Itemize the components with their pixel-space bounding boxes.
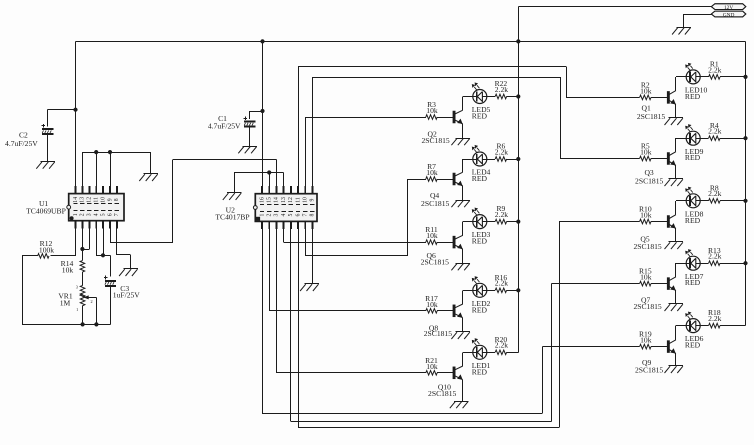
svg-text:RED: RED: [685, 92, 701, 101]
wire Q4 emitter: [462, 186, 464, 200]
wire U2 pin4 to Q6 base: [284, 221, 426, 242]
svg-text:10k: 10k: [62, 265, 74, 274]
LED LED4 label: [472, 168, 491, 183]
ground Q1: [665, 118, 684, 126]
svg-text:RED: RED: [472, 237, 488, 246]
transistor Q8 label: [424, 323, 452, 337]
resistor R9 label: [495, 204, 508, 219]
wire LED10 to R1: [696, 76, 709, 78]
resistor R20 2.2k: [495, 350, 518, 355]
resistor R6 2.2k: [495, 157, 518, 162]
wire U2 VDD feed (pin 16): [262, 41, 264, 193]
resistor R3 10k: [426, 115, 453, 120]
wire Q2 collector: [463, 97, 477, 111]
node R8 supply junction: [744, 199, 747, 202]
capacitor C2: [41, 124, 53, 162]
svg-text:RED: RED: [685, 153, 701, 162]
LED LED6 label: [685, 334, 704, 349]
ground Q4: [451, 200, 470, 207]
LED LED2 label: [472, 299, 491, 314]
resistor R1 2.2k: [709, 75, 746, 80]
resistor R7 10k: [426, 177, 453, 182]
resistor R4 label: [708, 121, 721, 136]
svg-text:10k: 10k: [426, 106, 438, 115]
resistor R22 label: [495, 79, 509, 94]
transistor Q1 label: [637, 104, 665, 122]
node U1 pin2/pin3 junction: [81, 247, 84, 250]
svg-text:1: 1: [259, 213, 265, 216]
ground GND flag: [672, 28, 691, 35]
ground Q8: [451, 332, 470, 340]
svg-text:11: 11: [295, 197, 301, 203]
ground Q10: [450, 401, 469, 408]
wire Q7 collector: [676, 263, 691, 277]
resistor R7 label: [426, 162, 438, 177]
svg-text:1: 1: [76, 307, 78, 312]
U2 reference label: [215, 206, 249, 222]
transistor Q10 label: [428, 383, 456, 398]
svg-text:2.2k: 2.2k: [708, 65, 721, 74]
wire U1 pin4 to C3: [96, 221, 110, 277]
LED LED4: [472, 146, 486, 166]
U2 pin numbers top row: [259, 197, 315, 205]
resistor R11 label: [425, 225, 438, 240]
svg-text:2.2k: 2.2k: [495, 85, 508, 94]
transistor Q9 2SC1815: [667, 340, 676, 354]
wire LED2 to R16: [482, 290, 495, 292]
wire Q3 collector: [676, 138, 691, 152]
wire Q2 emitter: [462, 124, 464, 138]
svg-text:14: 14: [73, 197, 79, 203]
resistor R21 10k: [426, 371, 453, 376]
wire Q8 collector: [463, 290, 477, 304]
wire Q7 emitter: [675, 291, 677, 304]
svg-text:10k: 10k: [640, 148, 652, 157]
resistor R18 label: [708, 308, 722, 323]
ground Q3: [665, 179, 684, 187]
svg-text:7: 7: [114, 213, 120, 216]
node rail-12V junction: [517, 40, 520, 43]
node VR1 bottom junction: [81, 323, 84, 326]
transistor Q5 label: [633, 234, 661, 251]
svg-text:12: 12: [87, 197, 93, 203]
resistor R8 label: [708, 183, 721, 198]
wire Q6 collector: [463, 222, 477, 236]
resistor R17 label: [425, 294, 438, 309]
wire Q1 emitter: [675, 104, 677, 117]
svg-text:10: 10: [303, 197, 309, 203]
wire Q8 emitter: [462, 318, 464, 332]
ground C1: [238, 147, 257, 154]
svg-text:2SC1815: 2SC1815: [635, 177, 663, 186]
ground U2 reset: [223, 193, 242, 200]
wire Q9 collector: [676, 326, 691, 340]
transistor Q2 label: [421, 129, 449, 145]
svg-text:4.7uF/25V: 4.7uF/25V: [208, 121, 241, 130]
wire LED1 to R20: [482, 352, 495, 354]
U1 pin numbers bottom row: [73, 211, 120, 217]
resistor R15 10k: [640, 281, 668, 286]
capacitor C3: [104, 276, 116, 325]
LED LED6: [686, 312, 700, 332]
wire U1 pin7 to ground: [117, 221, 131, 269]
wire +12V top rail: [76, 41, 746, 43]
wire U2 reset/enable ground: [234, 173, 283, 194]
transistor Q10 2SC1815: [453, 366, 463, 380]
wire U2 pin5 to Q7 base (bus B): [291, 221, 640, 421]
node C2 tap junction: [74, 108, 77, 111]
counter U2 body (TC4017BP): [253, 186, 317, 229]
wire U2 pin6 to Q5 base (bus C): [298, 221, 640, 427]
svg-text:GND: GND: [723, 12, 735, 18]
svg-text:11: 11: [94, 197, 100, 203]
svg-text:6: 6: [295, 213, 301, 216]
wire 12V flag to bus: [518, 6, 711, 8]
wire LED9 to R4: [696, 138, 709, 140]
LED LED3 label: [472, 230, 491, 245]
node R9 supply junction: [517, 220, 520, 223]
svg-text:16: 16: [259, 197, 265, 203]
LED LED7 label: [685, 272, 704, 287]
wire Q3 emitter: [675, 166, 677, 179]
svg-text:10k: 10k: [640, 86, 652, 95]
node U1 pin9 junction: [108, 151, 111, 154]
svg-text:2SC1815: 2SC1815: [424, 329, 452, 338]
transistor Q4 2SC1815: [453, 172, 463, 186]
node R1 supply junction: [744, 75, 747, 78]
svg-text:2SC1815: 2SC1815: [637, 112, 665, 121]
node VR1 wiper junction: [95, 323, 98, 326]
svg-text:10k: 10k: [640, 273, 652, 282]
svg-text:2.2k: 2.2k: [708, 252, 721, 261]
svg-text:2.2k: 2.2k: [708, 127, 721, 136]
resistor R14: [80, 261, 85, 286]
svg-text:2: 2: [91, 299, 93, 304]
ground Q9: [665, 366, 684, 374]
U1 reference label: [26, 199, 66, 216]
op-amp U1 body (TC4069UBP hex inverter): [67, 186, 124, 229]
ground Q2: [451, 138, 470, 145]
connector flag GND: [711, 11, 746, 18]
svg-text:2SC1815: 2SC1815: [421, 199, 449, 208]
svg-text:2.2k: 2.2k: [495, 341, 508, 350]
node U1 pin5 junction: [101, 254, 104, 257]
wire Q1 collector: [676, 77, 691, 91]
svg-text:TC4069UBP: TC4069UBP: [26, 207, 66, 216]
wire U1 pin5 down: [103, 221, 105, 256]
svg-text:2SC1815: 2SC1815: [633, 242, 661, 251]
node C1 tap junction: [261, 109, 264, 112]
svg-text:10k: 10k: [426, 168, 438, 177]
svg-text:2SC1815: 2SC1815: [633, 302, 661, 311]
svg-text:2.2k: 2.2k: [495, 210, 508, 219]
resistor R20 label: [495, 335, 509, 350]
svg-text:RED: RED: [685, 341, 701, 350]
wire Q6 emitter: [462, 249, 464, 263]
wire right +12V rail: [745, 41, 747, 325]
resistor R10 label: [639, 205, 652, 220]
resistor R2 10k: [640, 95, 668, 100]
transistor Q4 label: [421, 191, 449, 208]
svg-text:10k: 10k: [426, 231, 438, 240]
resistor R1 label: [708, 60, 721, 75]
wire LED4 to R6: [482, 159, 495, 161]
svg-text:3: 3: [274, 213, 280, 216]
LED LED9 label: [685, 147, 704, 162]
U2 pin numbers bottom row: [259, 212, 315, 217]
svg-text:13: 13: [281, 197, 287, 203]
svg-text:5: 5: [288, 213, 294, 216]
wire to C1: [250, 111, 263, 119]
LED LED9: [686, 125, 700, 145]
resistor R8 2.2k: [709, 199, 746, 204]
wire U2 pin9 to Q3 base: [312, 77, 639, 194]
ground Q5: [665, 242, 684, 250]
wire LED6 to R18: [696, 325, 709, 327]
wire LED8 to R8: [696, 200, 709, 202]
svg-text:10: 10: [100, 197, 106, 203]
resistor R5 10k: [640, 156, 668, 161]
wire Q10 collector: [463, 352, 477, 366]
ground U1 pin7: [119, 269, 138, 277]
LED LED7: [686, 250, 700, 270]
capacitor C2 label: [5, 130, 38, 148]
capacitor C1 label: [208, 114, 241, 130]
LED LED2: [472, 277, 486, 297]
wire Q4 collector: [463, 159, 477, 172]
wire U1 pin6 clock out: [110, 159, 277, 242]
svg-text:2SC1815: 2SC1815: [428, 389, 456, 398]
resistor R5 label: [640, 142, 652, 157]
resistor R4 2.2k: [709, 136, 746, 141]
svg-text:12: 12: [288, 197, 294, 203]
svg-text:7: 7: [303, 213, 309, 216]
wire U2 pin12 stub: [290, 186, 292, 194]
wire oscillator bottom loop: [22, 256, 110, 325]
ground Q6: [451, 264, 470, 271]
resistor R3 label: [426, 100, 438, 115]
wire Q5 emitter: [675, 229, 677, 242]
node R22 supply junction: [517, 95, 520, 98]
resistor R15 label: [639, 267, 652, 282]
wire U1 VDD feed (pin 14): [75, 41, 77, 193]
resistor R14 label: [61, 259, 74, 275]
svg-text:2.2k: 2.2k: [495, 147, 508, 156]
svg-text:RED: RED: [472, 174, 488, 183]
ground C2: [36, 162, 55, 169]
resistor R12 label: [39, 239, 54, 255]
LED LED1: [472, 339, 486, 359]
wire LED7 to R13: [696, 263, 709, 265]
transistor Q9 label: [635, 358, 663, 375]
ground U2 VSS (pin 8): [300, 221, 319, 291]
svg-text:14: 14: [274, 197, 280, 203]
svg-text:2SC1815: 2SC1815: [421, 257, 449, 266]
wire LED3 to R9: [482, 221, 495, 223]
resistor R17 10k: [426, 309, 453, 314]
svg-text:12V: 12V: [724, 5, 733, 11]
wire U1 unused-input bus: [82, 152, 150, 194]
svg-text:1: 1: [73, 213, 79, 216]
svg-text:15: 15: [267, 197, 273, 203]
wire Q9 emitter: [675, 354, 677, 366]
resistor R9 2.2k: [495, 219, 518, 224]
wire U1 pin1 to R12: [50, 221, 75, 256]
svg-text:100k: 100k: [39, 246, 54, 255]
node R4 supply junction: [744, 137, 747, 140]
wire U1 pin12 stub: [88, 186, 90, 194]
transistor Q3 label: [635, 168, 663, 186]
resistor R16 label: [495, 273, 509, 288]
svg-text:3: 3: [76, 285, 78, 290]
svg-text:RED: RED: [685, 216, 701, 225]
wire LED5 to R22: [482, 96, 495, 98]
svg-text:10k: 10k: [426, 300, 438, 309]
svg-text:9: 9: [107, 198, 113, 201]
node U2 pin15 junction: [268, 171, 271, 174]
transistor Q6 2SC1815: [453, 235, 463, 249]
wire 12V vertical bus: [518, 7, 520, 353]
resistor R11 10k: [426, 240, 453, 245]
svg-text:1M: 1M: [60, 299, 71, 308]
svg-text:2: 2: [80, 213, 86, 216]
svg-text:4: 4: [281, 213, 287, 216]
U1 pin numbers top row: [73, 197, 120, 204]
transistor Q3 2SC1815: [667, 152, 676, 166]
svg-text:9: 9: [310, 198, 316, 201]
transistor Q7 2SC1815: [667, 277, 676, 291]
svg-text:2SC1815: 2SC1815: [421, 136, 449, 145]
potentiometer VR1: [80, 285, 96, 324]
wire to C2: [48, 110, 76, 127]
wire U2 pin11 to Q1 base: [298, 67, 640, 194]
wire U2 pin1 to Q9 base (bus A): [262, 221, 640, 413]
wire U1 pin2 down: [82, 221, 84, 261]
transistor Q1 2SC1815: [667, 91, 676, 105]
resistor R16 2.2k: [495, 288, 518, 293]
LED LED10 label: [685, 86, 708, 101]
resistor R22 2.2k: [495, 94, 518, 99]
wire U2 pin2 to Q8 base: [269, 221, 426, 310]
LED LED8 label: [685, 209, 704, 224]
node R16 supply junction: [517, 289, 520, 292]
svg-text:10k: 10k: [426, 362, 438, 371]
wire Q10 emitter: [462, 380, 464, 401]
LED LED3: [472, 208, 486, 228]
svg-text:2.2k: 2.2k: [708, 189, 721, 198]
resistor R21 label: [425, 356, 438, 371]
LED LED5: [472, 83, 486, 103]
svg-text:4.7uF/25V: 4.7uF/25V: [5, 139, 38, 148]
resistor R2 label: [640, 80, 652, 95]
ground Q7: [665, 304, 684, 312]
svg-text:13: 13: [80, 197, 86, 203]
node R13 supply junction: [744, 262, 747, 265]
node R6 supply junction: [517, 157, 520, 160]
svg-text:10k: 10k: [640, 211, 652, 220]
wire U2 pin10 to Q2 base: [305, 117, 426, 194]
svg-text:RED: RED: [472, 112, 488, 121]
transistor Q8 2SC1815: [453, 304, 463, 318]
svg-text:RED: RED: [685, 278, 701, 287]
resistor R6 label: [495, 142, 508, 157]
svg-text:RED: RED: [472, 305, 488, 314]
transistor Q6 label: [421, 251, 449, 266]
svg-text:8: 8: [114, 198, 120, 201]
ground U1 unused inputs: [139, 174, 158, 182]
wire U2 pin7 to Q4 base: [305, 179, 426, 256]
resistor R13 label: [708, 246, 722, 261]
transistor Q5 2SC1815: [667, 215, 676, 229]
LED LED1 label: [472, 361, 491, 376]
svg-text:1uF/25V: 1uF/25V: [113, 291, 141, 300]
transistor Q7 label: [633, 295, 661, 311]
capacitor C1: [243, 116, 255, 146]
svg-text:6: 6: [107, 213, 113, 216]
connector flag 12V: [711, 4, 746, 11]
resistor R10 10k: [640, 219, 668, 224]
capacitor C3 label: [113, 284, 141, 299]
svg-text:2: 2: [267, 213, 273, 216]
svg-text:2.2k: 2.2k: [708, 314, 721, 323]
svg-text:TC4017BP: TC4017BP: [215, 212, 249, 221]
svg-text:2.2k: 2.2k: [495, 279, 508, 288]
svg-text:3: 3: [87, 213, 93, 216]
LED LED8: [686, 187, 700, 207]
svg-text:8: 8: [310, 213, 316, 216]
svg-text:4: 4: [94, 213, 100, 216]
resistor R12: [22, 254, 49, 259]
resistor R13 2.2k: [709, 261, 746, 266]
wire U1 pin10 stub: [102, 186, 104, 194]
transistor Q2 2SC1815: [453, 110, 463, 124]
LED LED10: [686, 64, 700, 84]
resistor R19 label: [639, 330, 652, 345]
potentiometer VR1 label: [58, 285, 92, 312]
LED LED5 label: [472, 105, 491, 120]
resistor R18 2.2k: [709, 323, 746, 328]
wire U1 pin3 jog: [82, 221, 89, 250]
svg-text:10k: 10k: [640, 336, 652, 345]
resistor R19 10k: [640, 344, 668, 349]
svg-text:5: 5: [100, 213, 106, 216]
node rail-C1 junction: [261, 40, 264, 43]
svg-text:RED: RED: [472, 367, 488, 376]
svg-text:2SC1815: 2SC1815: [635, 366, 663, 375]
wire Q5 collector: [676, 201, 691, 215]
wire U2 pin3 to Q10 base: [276, 221, 425, 372]
wire U1 pin8 stub: [116, 186, 118, 194]
wire GND flag: [684, 14, 712, 27]
node U1 pin11 junction: [95, 151, 98, 154]
